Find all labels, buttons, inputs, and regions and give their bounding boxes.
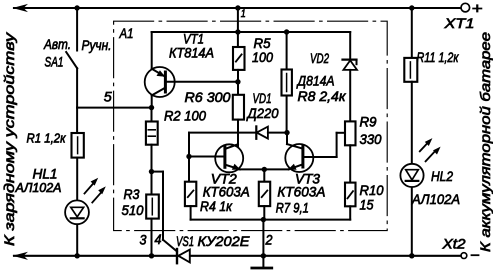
resistor R7 9,1 bbox=[259, 169, 309, 219]
module A1 dash-dot boundary bbox=[114, 21, 388, 230]
svg-text:VD1: VD1 bbox=[253, 91, 272, 106]
resistor R9 330 bbox=[345, 115, 382, 183]
svg-text:КТ603А: КТ603А bbox=[277, 185, 325, 200]
svg-text:R7 9,1: R7 9,1 bbox=[276, 201, 309, 216]
svg-text:15: 15 bbox=[360, 198, 374, 213]
wire top positive rail bbox=[14, 7, 460, 9]
transistor VT2 KT603A bbox=[203, 144, 250, 199]
svg-text:R6 300: R6 300 bbox=[185, 89, 231, 105]
svg-text:VT1: VT1 bbox=[183, 32, 204, 47]
arrow to charger (top left) bbox=[13, 4, 29, 12]
resistor R2 100 bbox=[146, 108, 206, 172]
wire pin 2 to ground bbox=[262, 220, 264, 256]
svg-text:R4 1к: R4 1к bbox=[200, 199, 232, 214]
svg-text:R5: R5 bbox=[254, 36, 271, 51]
svg-text:4: 4 bbox=[155, 232, 162, 247]
resistor R5 100 bbox=[233, 36, 273, 95]
wire R1 to HL1 to bottom rail bbox=[76, 158, 78, 256]
LED HL2 AL102A bbox=[400, 138, 460, 207]
terminal XT2 bbox=[441, 236, 478, 259]
resistor R11 1,2k bbox=[404, 8, 459, 256]
transistor VT3 KT603A bbox=[277, 133, 336, 200]
resistor R4 1k bbox=[185, 182, 233, 220]
svg-text:100: 100 bbox=[252, 50, 273, 65]
svg-text:2: 2 bbox=[265, 233, 273, 248]
svg-text:R1 1,2к: R1 1,2к bbox=[27, 132, 67, 146]
wire pin 1 drop from rail into A1 bbox=[237, 8, 239, 47]
svg-text:КТ603А: КТ603А bbox=[203, 185, 250, 200]
svg-text:R2 100: R2 100 bbox=[164, 108, 206, 124]
resistor R1 1,2k bbox=[27, 108, 84, 158]
svg-text:SA1: SA1 bbox=[45, 54, 64, 70]
wire VD1 cathode to VT2 base and R4 bbox=[189, 133, 225, 182]
resistor R3 510 bbox=[122, 172, 159, 256]
svg-text:К зарядному устройству: К зарядному устройству bbox=[1, 32, 17, 246]
wire node 5 into A1 bbox=[77, 107, 151, 109]
resistor R10 15 bbox=[345, 183, 384, 220]
svg-text:HL1: HL1 bbox=[33, 167, 58, 182]
wire pin 4 branch to VS1 gate bbox=[152, 172, 177, 252]
svg-text:+: + bbox=[472, 1, 483, 18]
svg-text:330: 330 bbox=[360, 132, 382, 147]
svg-text:R8 2,4к: R8 2,4к bbox=[298, 88, 347, 104]
LED HL1 AL102A bbox=[15, 167, 106, 225]
wire VT3 base tap to R9 bbox=[337, 133, 345, 157]
svg-text:КУ202Е: КУ202Е bbox=[198, 233, 251, 249]
svg-text:КТ814А: КТ814А bbox=[169, 46, 214, 61]
svg-text:Авт.: Авт. bbox=[43, 36, 71, 52]
wire inner top bus bbox=[152, 31, 351, 33]
svg-text:VD2: VD2 bbox=[310, 51, 329, 66]
svg-text:Ручн.: Ручн. bbox=[82, 37, 112, 53]
resistor R6 300 bbox=[185, 89, 245, 146]
svg-text:1: 1 bbox=[241, 8, 246, 20]
terminal XT1 bbox=[443, 1, 482, 32]
svg-text:АЛ102А: АЛ102А bbox=[15, 181, 62, 195]
svg-text:Xt2: Xt2 bbox=[441, 236, 465, 252]
transistor VT1 KT814A bbox=[145, 32, 238, 108]
svg-text:R3: R3 bbox=[124, 187, 140, 202]
svg-text:АЛ102А: АЛ102А bbox=[411, 192, 460, 207]
wire common emitters bbox=[238, 168, 289, 170]
svg-text:Д220: Д220 bbox=[246, 105, 279, 121]
svg-text:К аккумуляторной батарее: К аккумуляторной батарее bbox=[477, 32, 493, 252]
wire bottom bus of trigger bbox=[191, 219, 351, 221]
resistor R8 2,4k bbox=[282, 32, 347, 133]
svg-text:R10: R10 bbox=[360, 183, 384, 198]
svg-text:510: 510 bbox=[122, 203, 144, 218]
svg-text:A1: A1 bbox=[119, 25, 134, 41]
diode VD1 D220 bbox=[189, 91, 287, 139]
svg-text:HL2: HL2 bbox=[431, 168, 453, 184]
svg-text:R11 1,2к: R11 1,2к bbox=[417, 50, 459, 65]
switch SA1 bbox=[43, 8, 111, 108]
wire bottom negative rail bbox=[14, 255, 461, 257]
zener diode VD2 D814A bbox=[296, 32, 357, 121]
thyristor VS1 KU202E bbox=[176, 233, 250, 263]
ground bbox=[252, 256, 272, 268]
svg-text:VS1: VS1 bbox=[176, 233, 194, 249]
arrow to charger (bottom left) bbox=[13, 252, 29, 260]
svg-text:Д814А: Д814А bbox=[296, 73, 335, 89]
svg-text:R9: R9 bbox=[360, 115, 377, 130]
svg-text:XT1: XT1 bbox=[443, 15, 474, 31]
svg-text:3: 3 bbox=[140, 233, 147, 248]
svg-text:5: 5 bbox=[104, 90, 112, 105]
